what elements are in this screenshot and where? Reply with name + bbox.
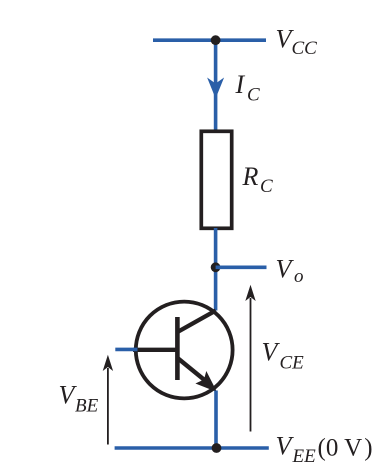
svg-text:R: R bbox=[242, 162, 259, 191]
label V_CC bbox=[276, 25, 318, 59]
label R_C bbox=[242, 162, 274, 197]
wire bottom rail bbox=[115, 446, 269, 450]
svg-text:CE: CE bbox=[280, 352, 305, 373]
wire top rail bbox=[153, 38, 266, 42]
node Vo junction bbox=[211, 262, 221, 272]
svg-text:o: o bbox=[294, 266, 304, 287]
svg-text:I: I bbox=[235, 70, 246, 99]
arrow V_BE bbox=[103, 355, 113, 445]
arrow V_CE bbox=[245, 285, 255, 432]
label V_CE bbox=[262, 338, 305, 374]
transistor Q1 bbox=[133, 302, 233, 399]
svg-text:C: C bbox=[260, 176, 273, 197]
svg-text:CC: CC bbox=[292, 38, 318, 59]
wire collector supply (Vcc to resistor) bbox=[214, 40, 218, 131]
wire resistor to collector bbox=[214, 228, 218, 311]
svg-text:BE: BE bbox=[75, 395, 99, 416]
wire base stub bbox=[115, 348, 137, 352]
label V_BE bbox=[59, 380, 99, 416]
node bottom VEE junction bbox=[212, 443, 222, 453]
svg-text:EE: EE bbox=[292, 446, 317, 467]
label V_o bbox=[276, 254, 304, 287]
current arrow I_C bbox=[207, 78, 224, 99]
svg-text:V: V bbox=[276, 254, 295, 283]
svg-text:(0 V ): (0 V ) bbox=[318, 435, 373, 462]
resistor R_C bbox=[201, 131, 231, 228]
label V_EE (0 V) bbox=[276, 432, 373, 468]
svg-text:V: V bbox=[262, 338, 281, 367]
wire emitter down bbox=[214, 391, 218, 449]
node top Vcc junction bbox=[211, 35, 221, 45]
svg-text:C: C bbox=[247, 85, 260, 106]
label I_C bbox=[235, 70, 261, 106]
wire Vo stub bbox=[216, 265, 267, 269]
